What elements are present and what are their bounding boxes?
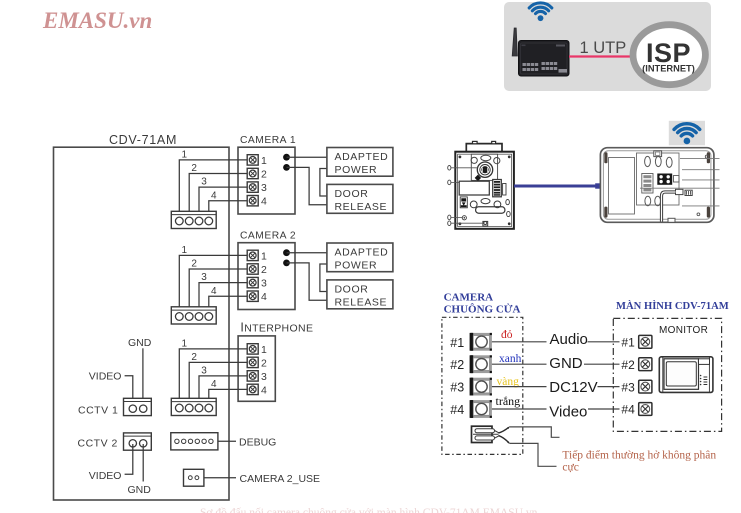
svg-text:MÀN HÌNH CDV-71AM: MÀN HÌNH CDV-71AM — [616, 300, 729, 312]
CCTV2 2-pin strip — [124, 433, 152, 450]
monitor terminal #3 — [639, 380, 652, 393]
terminal #1 — [470, 333, 492, 351]
svg-text:2: 2 — [191, 163, 197, 174]
wire dot2 to door release — [287, 263, 327, 300]
corner clips — [604, 152, 607, 163]
svg-text:RELEASE: RELEASE — [335, 297, 388, 309]
DEBUG wire — [218, 440, 236, 442]
svg-text:2: 2 — [261, 357, 267, 369]
corner screws — [459, 156, 462, 159]
svg-text:2: 2 — [191, 259, 197, 270]
callout line 4 — [451, 222, 483, 224]
wire 2 (GND) — [492, 363, 547, 365]
spade contact pair — [472, 426, 493, 442]
svg-text:4: 4 — [261, 196, 267, 208]
dashed enclosure (door camera) — [442, 317, 523, 454]
callout marker 3 — [448, 215, 451, 220]
wire 1 — [179, 160, 247, 211]
svg-text:DOOR: DOOR — [335, 284, 369, 296]
svg-text:Video: Video — [549, 404, 587, 421]
svg-text:1 UTP: 1 UTP — [580, 39, 627, 57]
svg-text:DC12V: DC12V — [549, 379, 597, 396]
junction dot 2 — [283, 164, 290, 171]
right side ovals — [506, 200, 510, 205]
wire 2 — [189, 174, 247, 212]
svg-text:POWER: POWER — [335, 164, 378, 176]
svg-text:RELEASE: RELEASE — [335, 201, 388, 213]
terminal 1 — [247, 155, 258, 165]
junction dot 2 — [283, 260, 290, 267]
svg-text:trắng: trắng — [496, 394, 521, 408]
terminal 2 — [247, 168, 258, 178]
terminal 4 — [247, 384, 258, 394]
left inner panel — [609, 158, 635, 215]
svg-text:3: 3 — [261, 371, 267, 383]
callout marker 2 — [448, 180, 451, 185]
GND wire — [142, 444, 144, 482]
callout line 3 — [451, 216, 463, 218]
monitor body — [600, 148, 714, 223]
svg-text:3: 3 — [201, 366, 207, 377]
svg-text:ADAPTED: ADAPTED — [335, 151, 389, 163]
ADAPTED POWER box — [327, 148, 393, 177]
svg-text:3: 3 — [261, 182, 267, 194]
junction dot 1 — [283, 249, 290, 256]
terminal 2 — [247, 357, 258, 367]
4-pin connector strip — [171, 398, 216, 415]
bottom-left icon — [460, 197, 467, 208]
wire 3 (DC12V) — [492, 386, 547, 388]
camera lens — [477, 162, 492, 177]
svg-text:MONITOR: MONITOR — [659, 325, 708, 336]
svg-text:4: 4 — [211, 286, 217, 297]
screws — [705, 155, 708, 158]
wire 1 — [179, 349, 247, 398]
terminal 4 — [247, 291, 258, 301]
cable connector lugs — [676, 189, 684, 194]
wire 3 — [199, 283, 247, 307]
terminal 1 — [247, 344, 258, 354]
svg-text:CAMERA 2: CAMERA 2 — [240, 231, 296, 242]
bottom edge tab — [668, 218, 675, 222]
svg-text:CDV-71AM: CDV-71AM — [109, 133, 177, 147]
monitor terminal #4 — [639, 403, 652, 416]
svg-text:#2: #2 — [621, 358, 635, 372]
GND wire — [142, 348, 144, 405]
router body — [519, 41, 570, 77]
wire adapted power to door release — [320, 169, 327, 197]
svg-text:INTERPHONE: INTERPHONE — [240, 321, 313, 335]
svg-text:(INTERNET): (INTERNET) — [642, 64, 695, 74]
terminal 3 — [247, 371, 258, 381]
callout marker 1 — [448, 166, 451, 171]
svg-text:4: 4 — [261, 384, 267, 396]
small connector — [674, 176, 680, 183]
svg-text:đỏ: đỏ — [501, 329, 513, 341]
svg-text:Audio: Audio — [550, 331, 588, 348]
door unit body — [455, 152, 514, 229]
svg-text:Tiếp điểm thường hở không phân: Tiếp điểm thường hở không phân — [562, 448, 716, 461]
svg-text:GND: GND — [128, 337, 152, 349]
dash-dot enclosure (monitor) — [613, 318, 721, 431]
svg-text:1: 1 — [261, 250, 267, 262]
svg-text:4: 4 — [211, 190, 217, 201]
svg-text:3: 3 — [201, 272, 207, 283]
svg-text:#3: #3 — [621, 380, 635, 394]
svg-text:CHUÔNG CỬA: CHUÔNG CỬA — [444, 303, 521, 316]
svg-text:ADAPTED: ADAPTED — [335, 247, 389, 259]
svg-text:xanh: xanh — [499, 353, 522, 365]
VIDEO wire — [125, 376, 133, 405]
callout leader lines — [680, 158, 720, 160]
label plate — [459, 181, 489, 195]
svg-text:EMASU.vn: EMASU.vn — [42, 8, 152, 33]
svg-text:POWER: POWER — [335, 260, 378, 272]
svg-text:1: 1 — [261, 344, 267, 356]
svg-text:CAMERA 1: CAMERA 1 — [240, 135, 296, 146]
svg-text:GND: GND — [128, 484, 152, 496]
terminal 3 — [247, 182, 258, 192]
wire 4 — [209, 389, 247, 398]
svg-text:2: 2 — [191, 352, 197, 363]
CAMERA 2 connector box — [238, 243, 295, 310]
oval holes top — [645, 156, 651, 166]
svg-text:1: 1 — [261, 155, 267, 167]
monitor front drawing — [659, 357, 713, 393]
svg-text:VIDEO: VIDEO — [89, 371, 122, 383]
main unit CDV-71AM box — [54, 147, 230, 500]
wire 4 (Video) — [492, 408, 547, 410]
router ports row 1 — [523, 62, 568, 73]
svg-text:DEBUG: DEBUG — [239, 437, 276, 449]
ADAPTED POWER box — [327, 243, 393, 272]
terminal #4 — [470, 400, 492, 418]
monitor terminal #2 — [639, 358, 652, 371]
wire 3 — [199, 187, 247, 211]
router antenna — [512, 28, 517, 56]
svg-text:2: 2 — [261, 168, 267, 180]
4-pin connector strip — [171, 211, 216, 228]
bottom rounded slot — [476, 207, 505, 213]
camera module panel — [471, 154, 497, 180]
svg-text:1: 1 — [182, 245, 188, 256]
svg-text:#1: #1 — [450, 336, 464, 350]
top-right panel background — [504, 2, 711, 91]
svg-text:#2: #2 — [450, 358, 464, 372]
DEBUG connector block — [171, 433, 218, 450]
svg-text:4: 4 — [261, 291, 267, 303]
svg-text:VIDEO: VIDEO — [89, 470, 122, 482]
mounting plate — [637, 153, 680, 205]
oval holes bottom — [645, 196, 651, 206]
svg-text:1: 1 — [182, 150, 188, 161]
interconnect wire (blue) — [514, 185, 601, 188]
terminal #2 — [470, 355, 492, 373]
terminal #3 — [470, 378, 492, 396]
bottom tab — [483, 221, 488, 226]
VIDEO wire — [125, 444, 133, 474]
CCTV1 2-pin strip — [124, 398, 152, 415]
ISP (INTERNET) node — [633, 25, 705, 85]
top small circles — [471, 157, 477, 163]
svg-text:CCTV 1: CCTV 1 — [78, 405, 118, 417]
top tab — [654, 151, 662, 157]
DOOR RELEASE box — [327, 184, 393, 213]
wire adapted power to door release — [320, 264, 327, 292]
bottom ovals — [470, 201, 477, 208]
black terminal block — [657, 174, 672, 185]
4-pin connector strip — [171, 307, 216, 324]
wire dot1 to adapted power — [287, 252, 327, 254]
junction dot 1 — [283, 154, 290, 161]
svg-text:CCTV 2: CCTV 2 — [78, 438, 118, 450]
svg-text:DOOR: DOOR — [335, 188, 369, 200]
terminal 4 — [247, 196, 258, 206]
svg-text:#3: #3 — [450, 381, 464, 395]
contact wire upper — [510, 427, 560, 437]
monitor terminal #1 — [639, 335, 652, 348]
wire 3 — [199, 376, 247, 398]
wifi icon (router) — [529, 3, 552, 21]
CAMERA 1 connector box — [238, 147, 295, 214]
svg-text:#4: #4 — [621, 403, 635, 417]
svg-text:GND: GND — [549, 355, 583, 372]
svg-text:CAMERA 2_USE: CAMERA 2_USE — [240, 473, 321, 485]
terminal 2 — [247, 264, 258, 274]
gray terminal stack — [642, 174, 653, 194]
CAMERA 2_USE wire — [204, 477, 236, 479]
door unit top bracket — [466, 144, 502, 152]
svg-text:3: 3 — [261, 278, 267, 290]
wire 2 — [189, 362, 247, 398]
wifi patch above monitor — [669, 121, 705, 146]
terminal block — [493, 180, 502, 197]
wire 4 — [209, 201, 247, 212]
UTP link wire (pink) — [569, 55, 632, 57]
svg-text:Sơ đồ đấu nối camera chuông cử: Sơ đồ đấu nối camera chuông cửa với màn … — [200, 506, 538, 513]
svg-text:4: 4 — [211, 379, 217, 390]
svg-text:1: 1 — [182, 339, 188, 350]
svg-text:cực: cực — [562, 462, 578, 474]
diamond mark — [475, 175, 481, 182]
contact wire lower — [510, 443, 557, 466]
wire 1 (Audio) — [492, 341, 547, 343]
wire 4 — [209, 296, 247, 307]
DOOR RELEASE box — [327, 280, 393, 309]
svg-text:2: 2 — [261, 264, 267, 276]
svg-text:#1: #1 — [621, 336, 635, 350]
wire dot1 to adapted power — [287, 156, 327, 158]
svg-text:#4: #4 — [450, 403, 464, 417]
small circle with dot — [462, 216, 466, 220]
wifi icon (monitor) — [674, 124, 700, 145]
wire 2 — [189, 269, 247, 307]
terminal 1 — [247, 250, 258, 260]
callout line 2 — [451, 181, 460, 183]
INTERPHONE box — [238, 336, 275, 401]
svg-text:CAMERA: CAMERA — [444, 291, 494, 303]
CAMERA 2_USE connector block — [184, 469, 204, 486]
callout line 1 — [451, 167, 478, 169]
wire dot2 to door release — [287, 167, 327, 204]
wire 1 — [179, 255, 247, 306]
terminal 3 — [247, 277, 258, 287]
callout marker 4 — [448, 221, 451, 226]
small side slot — [503, 184, 506, 196]
cable — [662, 192, 676, 222]
svg-text:3: 3 — [201, 177, 207, 188]
